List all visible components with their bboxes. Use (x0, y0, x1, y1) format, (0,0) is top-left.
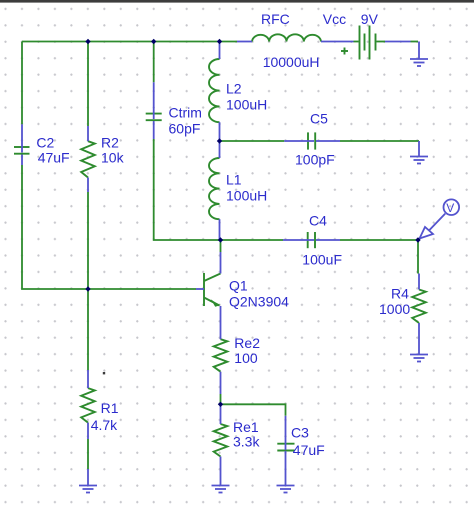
svg-text:V: V (446, 201, 454, 215)
svg-text:60pF: 60pF (169, 121, 201, 137)
svg-text:L1: L1 (226, 172, 242, 188)
svg-text:47uF: 47uF (38, 150, 70, 166)
svg-text:Re2: Re2 (234, 335, 260, 351)
svg-text:100pF: 100pF (295, 152, 335, 168)
svg-text:C3: C3 (291, 425, 309, 441)
svg-text:100uH: 100uH (226, 188, 267, 204)
svg-text:9V: 9V (361, 11, 379, 27)
svg-text:1000: 1000 (379, 301, 410, 317)
svg-text:100uH: 100uH (226, 97, 267, 113)
svg-text:R1: R1 (101, 400, 119, 416)
svg-text:3.3k: 3.3k (233, 433, 260, 449)
svg-text:Vcc: Vcc (323, 11, 346, 27)
svg-text:R2: R2 (101, 135, 119, 151)
svg-text:Q2N3904: Q2N3904 (229, 294, 289, 310)
svg-text:Q1: Q1 (229, 278, 248, 294)
svg-text:R4: R4 (391, 286, 409, 302)
svg-text:100uF: 100uF (302, 252, 342, 268)
svg-text:C5: C5 (310, 111, 328, 127)
svg-text:10k: 10k (101, 150, 125, 166)
svg-text:Ctrim: Ctrim (169, 105, 202, 121)
svg-text:47uF: 47uF (293, 442, 325, 458)
svg-text:4.7k: 4.7k (91, 417, 118, 433)
svg-text:C4: C4 (309, 213, 327, 229)
svg-text:L2: L2 (226, 81, 242, 97)
svg-text:10000uH: 10000uH (263, 54, 320, 70)
svg-text:RFC: RFC (261, 11, 290, 27)
svg-text:100: 100 (234, 350, 258, 366)
svg-text:C2: C2 (36, 135, 54, 151)
